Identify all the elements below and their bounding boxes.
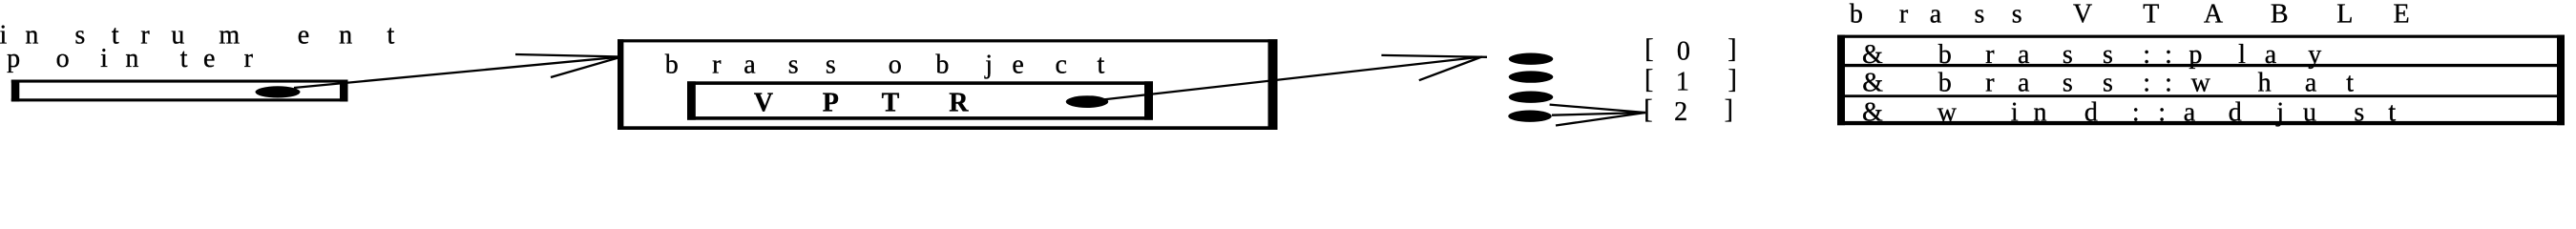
- vtable entry dot 0: [1509, 53, 1554, 65]
- brass VTABLE frame: [1837, 35, 2565, 126]
- VPTR cell box: [687, 81, 1153, 119]
- svg-text:[0]: [0]: [1644, 34, 1736, 66]
- svg-text:pointer: pointer: [7, 44, 254, 73]
- wire: arrow from vtable dots to index [2]: [1550, 105, 1645, 126]
- vtable entry dot 1: [1509, 71, 1554, 82]
- vtable entry dot 3: [1508, 111, 1552, 122]
- wire: arrow from instrument pointer to brass object: [294, 54, 621, 88]
- VPTR dot (vpointer value): [1066, 95, 1108, 108]
- svg-text:[2]: [2]: [1644, 94, 1733, 126]
- vtable entry dot 2: [1509, 92, 1554, 103]
- wire: arrow from VPTR to vtable: [1102, 55, 1487, 100]
- diagram: C++ vtable mechanism: [0, 0, 2576, 133]
- instrument pointer box: [11, 80, 348, 102]
- svg-text:VPTR: VPTR: [754, 89, 969, 118]
- svg-text:brassobject: brassobject: [665, 50, 1105, 79]
- pointer dot (instrument pointer value): [256, 86, 301, 97]
- svg-text:brassVTABLE: brassVTABLE: [1850, 0, 2410, 30]
- brass object box: [618, 39, 1278, 130]
- svg-text:&brass::what: &brass::what: [1862, 69, 2354, 98]
- svg-text:[1]: [1]: [1644, 65, 1737, 97]
